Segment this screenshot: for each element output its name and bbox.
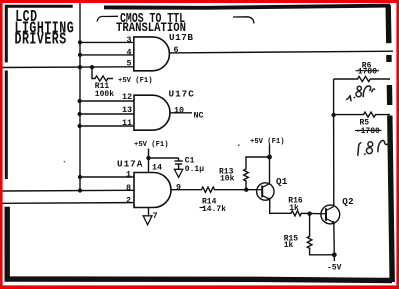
svg-text:2: 2: [126, 195, 131, 205]
svg-text:-5V: -5V: [327, 264, 342, 273]
svg-text:Q2: Q2: [342, 196, 354, 207]
svg-text:9: 9: [176, 182, 181, 192]
svg-text:+5V (F1): +5V (F1): [134, 141, 169, 149]
svg-text:100k: 100k: [95, 90, 114, 99]
svg-text:1k: 1k: [284, 241, 294, 250]
svg-text:Q1: Q1: [276, 176, 288, 187]
svg-text:10: 10: [174, 105, 184, 115]
svg-text:10k: 10k: [220, 175, 235, 184]
svg-text:DRIVERS: DRIVERS: [15, 31, 67, 50]
svg-text:0.1µ: 0.1µ: [185, 165, 204, 174]
svg-text:+5V (F1): +5V (F1): [250, 138, 285, 146]
svg-text:R5: R5: [360, 118, 370, 127]
svg-text:3: 3: [126, 35, 131, 45]
svg-text:1: 1: [126, 169, 131, 179]
svg-text:U17C: U17C: [169, 88, 195, 99]
svg-text:1k: 1k: [289, 204, 299, 213]
svg-text:8: 8: [126, 183, 131, 193]
svg-text:-1780: -1780: [356, 127, 380, 136]
svg-text:12: 12: [122, 92, 132, 102]
svg-text:NC: NC: [194, 111, 204, 121]
svg-text:13: 13: [122, 105, 132, 115]
svg-text:14: 14: [152, 162, 162, 172]
svg-text:4: 4: [126, 47, 131, 57]
svg-text:+5V (F1): +5V (F1): [118, 77, 153, 85]
svg-text:14.7k: 14.7k: [202, 205, 226, 214]
svg-text:7: 7: [153, 211, 158, 221]
svg-text:U17B: U17B: [169, 32, 194, 43]
svg-text:U17A: U17A: [117, 158, 143, 169]
svg-text:5: 5: [126, 59, 131, 69]
svg-text:11: 11: [122, 118, 132, 128]
svg-text:6: 6: [174, 45, 179, 55]
svg-text:1780: 1780: [358, 68, 377, 77]
